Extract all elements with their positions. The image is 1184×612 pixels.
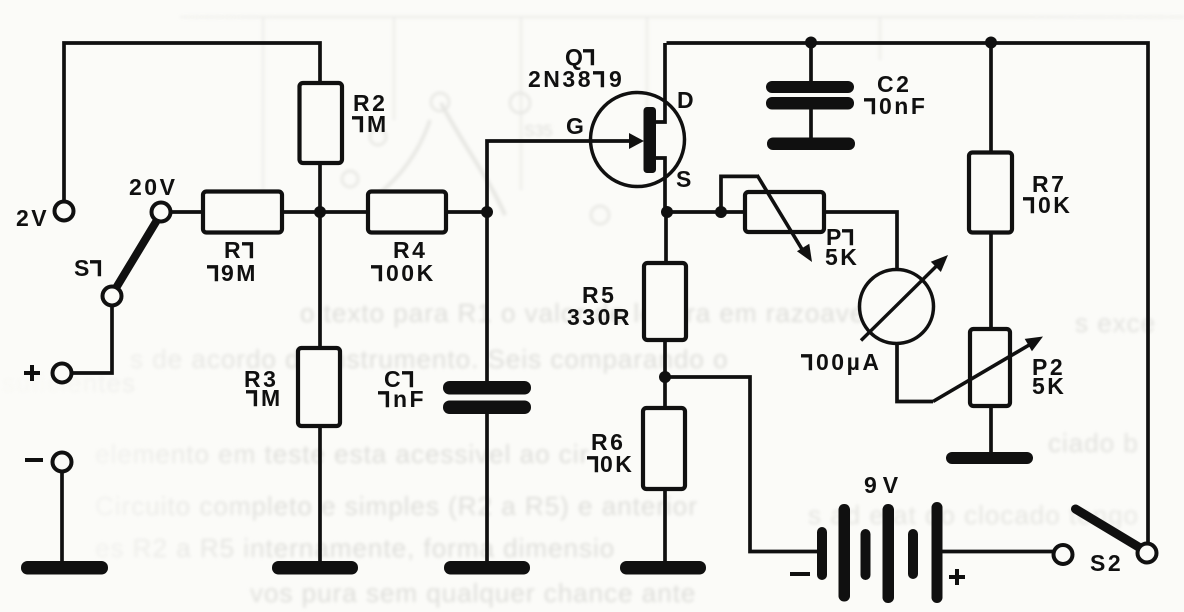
svg-text:es R2 a R5 internamente, forma: es R2 a R5 internamente, forma dimensio [95, 533, 615, 563]
svg-text:S: S [676, 166, 694, 192]
svg-text:0K: 0K [1038, 192, 1072, 218]
svg-text:S: S [74, 255, 92, 281]
svg-text:9V: 9V [864, 472, 904, 498]
svg-text:330R: 330R [567, 304, 632, 330]
svg-text:G: G [566, 113, 586, 139]
svg-text:ciado b: ciado b [1048, 428, 1139, 458]
svg-text:20V: 20V [129, 174, 177, 200]
svg-text:5K: 5K [825, 244, 859, 270]
svg-text:9: 9 [609, 66, 624, 92]
svg-text:00K: 00K [386, 260, 436, 286]
svg-text:M: M [367, 111, 389, 137]
svg-text:2V: 2V [16, 205, 49, 231]
svg-text:s exce: s exce [1075, 308, 1156, 338]
svg-text:00µA: 00µA [816, 349, 881, 375]
svg-text:elemento em teste esta acess: elemento em teste esta acessivel ao cir [95, 439, 589, 469]
svg-text:vos pura sem qualquer chance a: vos pura sem qualquer chance ante [250, 578, 696, 608]
svg-text:S35: S35 [524, 123, 553, 140]
svg-text:9M: 9M [221, 260, 258, 286]
svg-text:0K: 0K [600, 451, 634, 477]
svg-text:D: D [677, 87, 696, 113]
svg-text:M: M [261, 385, 283, 411]
svg-text:nF: nF [393, 386, 426, 412]
svg-text:5K: 5K [1032, 373, 1066, 399]
svg-text:0nF: 0nF [879, 93, 927, 119]
svg-text:Circuito completo e simples (R: Circuito completo e simples (R2 a R5) e … [95, 491, 698, 521]
svg-text:2N38: 2N38 [528, 66, 593, 92]
svg-text:s de acordo do instrumento. Se: s de acordo do instrumento. Seis compara… [130, 344, 729, 374]
svg-text:S2: S2 [1090, 550, 1123, 576]
